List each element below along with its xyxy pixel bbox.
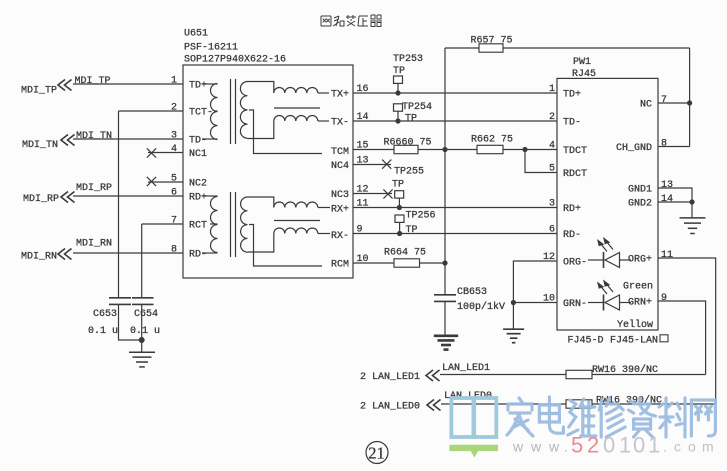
- wire ORG+ (pin11) to LAN_LED0: [658, 258, 716, 404]
- svg-text:SOP127P940X622-16: SOP127P940X622-16: [184, 55, 286, 66]
- svg-text:ORG-: ORG-: [563, 258, 587, 269]
- svg-text:TP256: TP256: [406, 211, 436, 222]
- wire GND2 (pin14): [658, 201, 692, 203]
- svg-text:TD+: TD+: [563, 90, 581, 101]
- svg-text:TX-: TX-: [331, 118, 349, 129]
- svg-text:.: .: [564, 439, 568, 455]
- svg-text:11: 11: [661, 250, 673, 261]
- wire NC (pin7): [658, 102, 690, 104]
- svg-text:MDI_TP: MDI_TP: [21, 86, 57, 97]
- node LAN_LED1: [360, 363, 706, 383]
- svg-text:TP: TP: [406, 225, 418, 236]
- inductor TX- choke: [274, 116, 318, 122]
- wire TX+ (pin16) to RJ45 TD+: [353, 92, 557, 94]
- node MDI_RP input (pin 6): [23, 183, 183, 205]
- wire secondary bottom to TX- choke: [248, 121, 274, 139]
- wire TX- (pin14) to RJ45 TD-: [353, 120, 557, 122]
- svg-text:GND1: GND1: [628, 185, 652, 196]
- RJ45 left pin labels and numbers: [543, 84, 587, 310]
- resistor RW16 390/NC (LED1): [566, 364, 658, 379]
- RJ45 right pin labels and numbers: [616, 95, 673, 309]
- svg-text:PSF-16211: PSF-16211: [184, 43, 238, 54]
- node LAN_LED0: [360, 391, 716, 413]
- junction R664/vertical: [442, 260, 447, 265]
- svg-text:NC4: NC4: [331, 161, 349, 172]
- svg-text:Green: Green: [623, 282, 653, 293]
- svg-text:w: w: [512, 439, 524, 455]
- svg-text:14: 14: [661, 194, 673, 205]
- inductor TX+ choke: [274, 88, 318, 93]
- testpoint TP256: [395, 211, 436, 237]
- wire GRN- (pin10): [513, 302, 557, 304]
- junction GND2: [689, 199, 694, 204]
- svg-text:C654: C654: [134, 309, 158, 320]
- connector PW1 RJ45 labels: [572, 57, 596, 80]
- title 网络变压器: [321, 15, 382, 27]
- transformer T-lower secondary winding: [241, 197, 248, 252]
- watermark text 家电维修资料网: [507, 397, 715, 437]
- wire GND1 (pin13): [658, 188, 692, 218]
- wire common vertical node: [444, 48, 446, 294]
- svg-text:RD+: RD+: [563, 204, 581, 215]
- junction TDCT/RDCT branch: [522, 147, 527, 152]
- svg-text:2: 2: [549, 112, 555, 123]
- svg-text:TD-: TD-: [189, 136, 207, 147]
- resistor R664 75: [384, 248, 426, 268]
- transformer T-upper core: [230, 79, 232, 144]
- ground below C653/C654: [129, 352, 155, 367]
- svg-text:5: 5: [571, 433, 583, 458]
- resistor RW16 390/NC (LED0): [566, 395, 662, 409]
- svg-text:m: m: [702, 439, 714, 455]
- svg-text:6: 6: [171, 188, 177, 199]
- transformer T-lower primary winding: [202, 196, 218, 253]
- watermark book icon: [449, 396, 498, 457]
- svg-text:1: 1: [549, 84, 555, 95]
- wire TCM (pin15) through R6660 and R662 to RJ45 TDCT: [353, 149, 557, 151]
- svg-text:TX+: TX+: [331, 90, 349, 101]
- svg-text:1: 1: [648, 433, 660, 458]
- svg-text:MDI_RN: MDI_RN: [76, 239, 112, 250]
- junction ORG-/GRN-: [511, 300, 516, 305]
- U651 right pin numbers: [357, 84, 369, 265]
- ground below GND2: [680, 218, 706, 234]
- node MDI_TN input (pin 3): [22, 131, 183, 152]
- wire secondary bottom to RX- choke: [248, 234, 274, 253]
- wire ORG- (pin12): [513, 261, 557, 329]
- svg-text:TCT-: TCT-: [189, 108, 213, 119]
- svg-text:8: 8: [171, 245, 177, 256]
- wire branch to RDCT: [525, 150, 557, 173]
- svg-text:TP: TP: [393, 66, 405, 77]
- watermark url www.520101.com: [512, 433, 714, 458]
- wire RX+ (pin11) to RJ45 RD+: [353, 207, 557, 209]
- svg-text:TP254: TP254: [402, 102, 432, 113]
- svg-text:3: 3: [171, 131, 177, 142]
- resistor R657 75: [471, 36, 513, 53]
- svg-text:MDI_TN: MDI_TN: [22, 140, 58, 151]
- wire CH_GND (pin8): [658, 146, 690, 148]
- testpoint TP254: [394, 102, 433, 125]
- transformer T-upper primary winding: [202, 84, 218, 140]
- svg-text:TD-: TD-: [563, 118, 581, 129]
- svg-text:PW1: PW1: [573, 57, 591, 68]
- wire NC to CH_GND vertical: [689, 48, 691, 147]
- svg-text:7: 7: [171, 216, 177, 227]
- svg-text:Yellow: Yellow: [617, 319, 653, 331]
- svg-text:2 LAN_LED1: 2 LAN_LED1: [360, 372, 420, 383]
- svg-text:MDI_RP: MDI_RP: [23, 194, 59, 205]
- svg-text:RD+: RD+: [189, 193, 207, 204]
- svg-text:RD-: RD-: [189, 250, 207, 261]
- svg-text:MDI_RP: MDI_RP: [76, 183, 112, 194]
- wire secondary tap to TCM: [249, 110, 322, 154]
- inductor RX+ choke: [274, 202, 318, 208]
- svg-text:5: 5: [549, 164, 555, 175]
- svg-text:TDCT: TDCT: [563, 146, 587, 157]
- svg-text:TP: TP: [392, 180, 404, 191]
- junction C653/C654: [139, 337, 145, 343]
- node MDI_TP input (pin 1): [21, 76, 183, 97]
- svg-text:TCM: TCM: [331, 147, 349, 158]
- resistor R662 75: [471, 135, 513, 154]
- junction NC/top wire: [687, 100, 692, 105]
- svg-text:21: 21: [368, 444, 385, 463]
- svg-text:c: c: [674, 439, 681, 455]
- wire top to RJ45 NC net: [445, 47, 690, 49]
- resistor R6660 75: [384, 138, 432, 154]
- svg-text:2 LAN_LED0: 2 LAN_LED0: [360, 402, 420, 413]
- svg-text:R662 75: R662 75: [471, 135, 513, 146]
- svg-text:100p/1kV: 100p/1kV: [457, 301, 505, 313]
- node MDI_RN input (pin 8): [21, 239, 183, 263]
- svg-text:7: 7: [661, 95, 667, 106]
- choke coupling bar lower: [274, 220, 320, 222]
- testpoint TP253: [393, 54, 423, 96]
- svg-text:GRN+: GRN+: [628, 298, 652, 309]
- svg-text:1: 1: [171, 76, 177, 87]
- pin 12 NC3 no-connect: [353, 189, 393, 198]
- U651 pin name labels: [189, 81, 349, 271]
- wire secondary top to TX+ choke: [248, 82, 274, 94]
- svg-text:6: 6: [549, 225, 555, 236]
- capacitor C653 0.1u: [88, 298, 142, 340]
- wire secondary tap to RCM: [249, 225, 322, 267]
- capacitor CB653 100p/1kV: [434, 287, 505, 336]
- svg-text:0: 0: [633, 433, 645, 458]
- svg-text:RX-: RX-: [331, 231, 349, 242]
- svg-text:TP255: TP255: [394, 167, 424, 178]
- wire pin 2 TCT center tap to C653: [119, 103, 184, 298]
- svg-text:FJ45-LAN: FJ45-LAN: [610, 336, 658, 347]
- LED green (ORG): [588, 239, 631, 269]
- svg-text:GND2: GND2: [628, 199, 652, 210]
- svg-text:13: 13: [661, 180, 673, 191]
- svg-text:4: 4: [549, 141, 555, 152]
- svg-text:0: 0: [603, 433, 615, 458]
- svg-text:RW16 390/NC: RW16 390/NC: [592, 364, 658, 376]
- svg-text:R664 75: R664 75: [384, 248, 426, 259]
- svg-text:CH_GND: CH_GND: [616, 143, 652, 154]
- transformer T-upper secondary winding: [240, 82, 247, 139]
- pin 13 NC4 no-connect: [353, 160, 391, 169]
- transformer U651 body outline: [183, 65, 353, 278]
- svg-text:U651: U651: [184, 29, 208, 40]
- testpoint TP255: [392, 167, 424, 211]
- ground below ORG-/GRN-: [503, 329, 524, 343]
- svg-text:0.1 u: 0.1 u: [130, 326, 160, 337]
- wire RCM (pin10) through R664: [353, 262, 445, 264]
- inductor RX- choke: [274, 228, 318, 233]
- svg-text:FJ45-D: FJ45-D: [568, 336, 604, 347]
- svg-text:ORG+: ORG+: [628, 255, 652, 266]
- svg-text:w: w: [530, 439, 542, 455]
- svg-text:C653: C653: [93, 309, 117, 320]
- U651 reference designator and part labels: [184, 29, 286, 66]
- svg-text:w: w: [548, 439, 560, 455]
- capacitor C654 0.1u: [130, 298, 160, 352]
- transformer T-lower core: [230, 192, 232, 257]
- svg-text:2: 2: [171, 103, 177, 114]
- ground below CB653: [434, 336, 458, 350]
- svg-text:GRN-: GRN-: [563, 299, 587, 310]
- svg-text:TD+: TD+: [189, 81, 207, 92]
- pin 4 NC1 no-connect: [147, 144, 183, 158]
- svg-text:RX+: RX+: [331, 205, 349, 216]
- choke coupling bar upper: [274, 107, 320, 109]
- svg-text:9: 9: [661, 293, 667, 304]
- svg-text:NC3: NC3: [331, 190, 349, 201]
- svg-text:.: .: [663, 439, 667, 455]
- svg-text:RDCT: RDCT: [563, 169, 587, 180]
- wire GRN+ (pin9) to LAN_LED1: [658, 301, 706, 375]
- connector PW1 RJ45 body: [557, 78, 658, 330]
- svg-text:o: o: [688, 439, 696, 455]
- junction TCM/vertical: [442, 147, 447, 152]
- svg-text:NC2: NC2: [189, 179, 207, 190]
- svg-text:1: 1: [619, 433, 631, 458]
- svg-text:4: 4: [171, 144, 177, 155]
- svg-text:TP: TP: [405, 114, 417, 125]
- svg-text:MDI_RN: MDI_RN: [21, 252, 57, 263]
- svg-text:5: 5: [171, 174, 177, 185]
- label FJ45-D FJ45-LAN: [568, 335, 669, 347]
- svg-text:LAN_LED1: LAN_LED1: [442, 363, 490, 374]
- wire RX- (pin9) to RJ45 RD-: [353, 233, 557, 235]
- svg-text:NC1: NC1: [189, 149, 207, 160]
- svg-text:3: 3: [549, 199, 555, 210]
- svg-text:8: 8: [661, 139, 667, 150]
- pin 5 NC2 no-connect: [147, 174, 183, 187]
- LED yellow (GRN): [588, 281, 631, 311]
- svg-text:CB653: CB653: [457, 287, 487, 298]
- svg-text:2: 2: [587, 433, 599, 458]
- svg-text:RD-: RD-: [563, 230, 581, 241]
- svg-text:TP253: TP253: [393, 54, 423, 65]
- svg-text:RCT: RCT: [189, 221, 207, 232]
- svg-text:MDI_TP: MDI_TP: [75, 76, 111, 87]
- wire pin 7 RCT center tap to C654: [142, 216, 183, 298]
- svg-text:RCM: RCM: [331, 260, 349, 271]
- svg-text:0.1 u: 0.1 u: [88, 326, 118, 337]
- svg-text:NC: NC: [640, 100, 652, 111]
- svg-text:MDI_TN: MDI_TN: [76, 131, 112, 142]
- page number 21 circled: [366, 442, 388, 464]
- wire secondary top to RX+ choke: [248, 197, 274, 208]
